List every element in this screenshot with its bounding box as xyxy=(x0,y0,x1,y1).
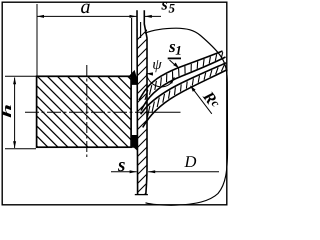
pipe wall hatching xyxy=(133,25,152,206)
s1 leader line xyxy=(168,57,181,59)
label psi xyxy=(153,60,162,72)
s1 leader arrow xyxy=(173,63,179,69)
label s xyxy=(118,162,125,171)
label D xyxy=(184,156,196,167)
counterbore step line xyxy=(140,22,142,38)
dimension h bottom arrow xyxy=(13,141,16,148)
dimension h line xyxy=(14,78,16,149)
horizontal centerline xyxy=(25,111,144,113)
label s1 xyxy=(169,44,175,52)
label a xyxy=(81,4,90,14)
dimension D line xyxy=(148,171,219,173)
bend wall band 1 lower edge xyxy=(141,57,226,111)
psi arc left arrow xyxy=(146,72,153,75)
dimension h extension lines xyxy=(5,75,36,77)
band 1 hatching xyxy=(145,52,223,100)
bore line above block xyxy=(131,18,133,76)
dimension s5 right arrow with tail xyxy=(145,15,161,17)
psi arc right arrow xyxy=(169,77,174,84)
dimension a extension line xyxy=(36,4,38,76)
pipe wall outer line xyxy=(136,10,139,194)
label s5 xyxy=(161,2,167,10)
flange block hatching xyxy=(10,0,190,240)
dimension s line left xyxy=(111,171,137,173)
Rc leader arrow xyxy=(191,86,196,92)
dimension s left arrow xyxy=(130,170,137,173)
label Rc xyxy=(202,92,215,105)
dimension h top arrow xyxy=(13,77,16,84)
bend wall band 2 lower edge xyxy=(143,70,228,128)
dimension s right arrow with tail xyxy=(148,170,155,173)
Rc leader line xyxy=(191,86,212,114)
dimension a line xyxy=(37,15,137,17)
label h xyxy=(2,105,11,117)
weld fillet bottom xyxy=(132,135,137,151)
figure border frame xyxy=(2,2,227,205)
view-break boundary curve xyxy=(145,28,228,205)
pipe wall inner line xyxy=(144,10,147,194)
pipe wall bottom cap xyxy=(135,194,148,196)
bend wall band 1 upper edge xyxy=(139,51,223,100)
psi angle arc xyxy=(146,74,174,87)
weld fillet top xyxy=(128,70,137,85)
dimension a right arrow xyxy=(130,15,137,18)
flange block outline xyxy=(37,76,132,147)
dimension a left arrow xyxy=(37,15,44,18)
bend wall band 2 upper edge xyxy=(141,63,227,114)
vertical centerline xyxy=(86,65,88,157)
band 2 hatching xyxy=(147,65,224,118)
